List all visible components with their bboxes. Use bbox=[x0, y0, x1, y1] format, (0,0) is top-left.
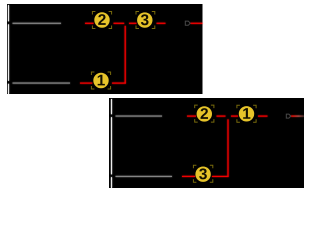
digit 2 (panel 1) bbox=[98, 14, 105, 25]
selection brackets badge 3 (panel 2) bbox=[193, 165, 212, 182]
net marker pentagon (panel 1) bbox=[185, 21, 190, 25]
digit 1 (panel 1) bbox=[98, 75, 105, 86]
pin badge 2 (panel 1) bbox=[94, 12, 109, 27]
pin badge 1 (panel 2) bbox=[239, 106, 254, 121]
wire segment into badge 2 bbox=[85, 22, 94, 24]
wire segment junction to badge 1 bbox=[231, 115, 238, 117]
digit 2 (panel 2) bbox=[201, 108, 208, 119]
selection brackets badge 2 (panel 2) bbox=[195, 105, 214, 122]
selection brackets badge 1 (panel 2) bbox=[237, 105, 256, 122]
pin 2 lead (panel 2) bbox=[116, 115, 163, 117]
page background bbox=[0, 0, 304, 188]
schematic canvas panel 2 (bottom-right screenshot) bbox=[109, 98, 304, 188]
digit 1 (panel 2) bbox=[243, 108, 250, 119]
net marker pentagon (panel 2) bbox=[286, 114, 291, 118]
wire segment into badge 2 bbox=[187, 115, 196, 117]
symbol U? body edge (panel 1) bbox=[8, 5, 10, 94]
schematic canvas panel 1 (top-left screenshot) bbox=[7, 4, 203, 94]
wire segment into badge 1 bbox=[80, 82, 92, 84]
wire segment badge 3 to net marker bbox=[157, 22, 166, 24]
wire junction vertical segment bbox=[124, 26, 126, 84]
pin 1 lead (panel 1) bbox=[13, 82, 71, 84]
wire segment junction to badge 3 bbox=[129, 22, 137, 24]
digit 3 (panel 1) bbox=[141, 14, 149, 25]
pin badge 2 (panel 2) bbox=[197, 106, 212, 121]
symbol U? body edge (panel 2) bbox=[111, 99, 113, 188]
wire segment badge 2 to junction bbox=[217, 115, 226, 117]
pin 2 lead (panel 1) bbox=[13, 22, 62, 24]
selection brackets badge 1 (panel 1) bbox=[91, 72, 110, 89]
wire segment badge 1 to net marker bbox=[258, 115, 268, 117]
wire segment badge 1 to corner bbox=[112, 82, 126, 84]
pin badge 3 (panel 1) bbox=[137, 12, 152, 27]
red wire net (panel 1) bbox=[80, 23, 203, 83]
wire segment badge 3 to corner bbox=[212, 175, 229, 177]
wire segment net marker to image edge bbox=[290, 115, 304, 117]
wire segment into badge 3 bbox=[182, 175, 195, 177]
wire junction vertical segment bbox=[227, 119, 229, 177]
wire segment badge 2 to junction bbox=[114, 22, 125, 24]
digit 3 (panel 2) bbox=[199, 168, 207, 179]
red wire net (panel 2) bbox=[182, 116, 304, 177]
selection brackets badge 3 (panel 1) bbox=[136, 12, 155, 29]
pin badge 3 (panel 2) bbox=[195, 167, 210, 182]
wire segment net marker to panel edge bbox=[190, 22, 202, 24]
selection brackets badge 2 (panel 1) bbox=[92, 12, 111, 29]
pin 3 lead (panel 2) bbox=[116, 175, 173, 177]
pin badge 1 (panel 1) bbox=[93, 73, 108, 88]
